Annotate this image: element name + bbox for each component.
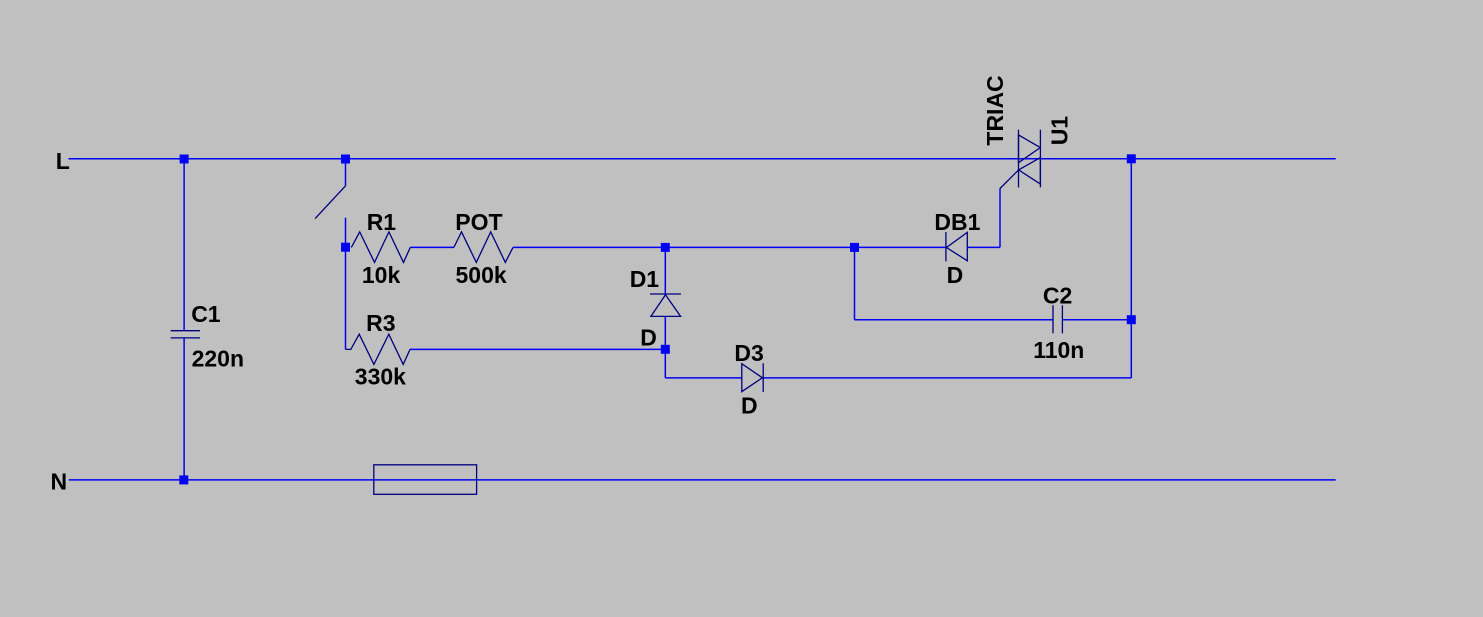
wire to D3 anode xyxy=(665,377,742,379)
wire node C down to C2 row xyxy=(854,247,856,319)
node L-right branch junction xyxy=(1127,154,1136,163)
wire C1 bottom segment xyxy=(183,339,185,480)
wire C1 top segment xyxy=(183,159,185,330)
node switch-R1-R3 junction xyxy=(341,243,350,252)
triac U1 lower triangle xyxy=(1019,158,1041,185)
svg-text:POT: POT xyxy=(455,209,502,235)
node C2-right branch junction xyxy=(1127,315,1136,324)
svg-text:220n: 220n xyxy=(192,346,244,372)
node L-C1 junction xyxy=(180,155,189,164)
wire D1 anode stub xyxy=(664,247,666,293)
node N-C1 junction xyxy=(179,475,188,484)
diac DB1 triangle xyxy=(947,232,968,260)
wire switch top stub xyxy=(345,159,347,186)
wire L rail xyxy=(68,158,1335,160)
switch SW1 blade xyxy=(315,186,346,219)
capacitor C1 plates xyxy=(171,331,200,338)
svg-text:C1: C1 xyxy=(191,301,221,327)
svg-text:500k: 500k xyxy=(456,262,507,288)
wire switch bottom stub xyxy=(345,218,347,248)
wire to C2 left plate xyxy=(855,319,1053,321)
wire vertical to R3 xyxy=(345,247,347,349)
svg-text:N: N xyxy=(51,469,68,495)
svg-text:DB1: DB1 xyxy=(934,209,980,235)
wire right vertical branch xyxy=(1130,159,1132,378)
wire gate vertical xyxy=(999,189,1001,248)
wire D1 cathode stub xyxy=(664,317,666,349)
triac U1 right bar MT1 xyxy=(1039,130,1041,188)
svg-text:R3: R3 xyxy=(366,310,395,336)
wire N rail xyxy=(69,479,1336,481)
fuse F1 body xyxy=(374,465,477,495)
triac U1 upper triangle xyxy=(1019,135,1041,163)
resistor POT xyxy=(454,232,513,263)
wire R3 to node D xyxy=(410,348,665,350)
node L-switch junction xyxy=(341,155,350,164)
wire D3 cathode to right vertical xyxy=(763,377,1131,379)
wire POT to node B xyxy=(513,246,665,248)
resistor R1 xyxy=(351,232,410,263)
node D junction xyxy=(661,345,670,354)
wire R1 to POT xyxy=(410,246,454,248)
capacitor C2 plates xyxy=(1053,305,1062,333)
triac U1 gate lead xyxy=(1000,170,1019,189)
wire node D down xyxy=(664,349,666,378)
svg-text:D: D xyxy=(947,262,964,288)
svg-text:D1: D1 xyxy=(630,266,660,292)
wire DB1 to gate corner xyxy=(967,246,1000,248)
resistor R3 xyxy=(346,334,411,364)
svg-text:110n: 110n xyxy=(1033,337,1084,363)
svg-text:L: L xyxy=(56,148,70,174)
triac U1 left bar MT2 xyxy=(1018,130,1020,188)
node B POT-D1 junction xyxy=(661,243,670,252)
svg-text:TRIAC: TRIAC xyxy=(982,75,1008,145)
node C DB1-C2 junction xyxy=(850,243,859,252)
svg-text:R1: R1 xyxy=(367,209,397,235)
svg-text:330k: 330k xyxy=(355,364,406,390)
svg-text:D: D xyxy=(640,324,657,350)
wire node B to node C xyxy=(665,246,854,248)
diode D1 cathode bar xyxy=(650,293,681,295)
diac DB1 bar xyxy=(945,232,947,261)
wire C2 right plate to node xyxy=(1062,319,1131,321)
svg-text:10k: 10k xyxy=(362,262,401,288)
svg-text:C2: C2 xyxy=(1043,282,1072,308)
wire node C to DB1 xyxy=(855,246,946,248)
svg-text:U1: U1 xyxy=(1047,116,1073,146)
diode D3 triangle xyxy=(742,364,763,392)
svg-text:D3: D3 xyxy=(734,340,763,366)
svg-text:D: D xyxy=(741,393,758,419)
diode D3 cathode bar xyxy=(762,363,764,392)
diode D1 triangle xyxy=(651,295,681,317)
